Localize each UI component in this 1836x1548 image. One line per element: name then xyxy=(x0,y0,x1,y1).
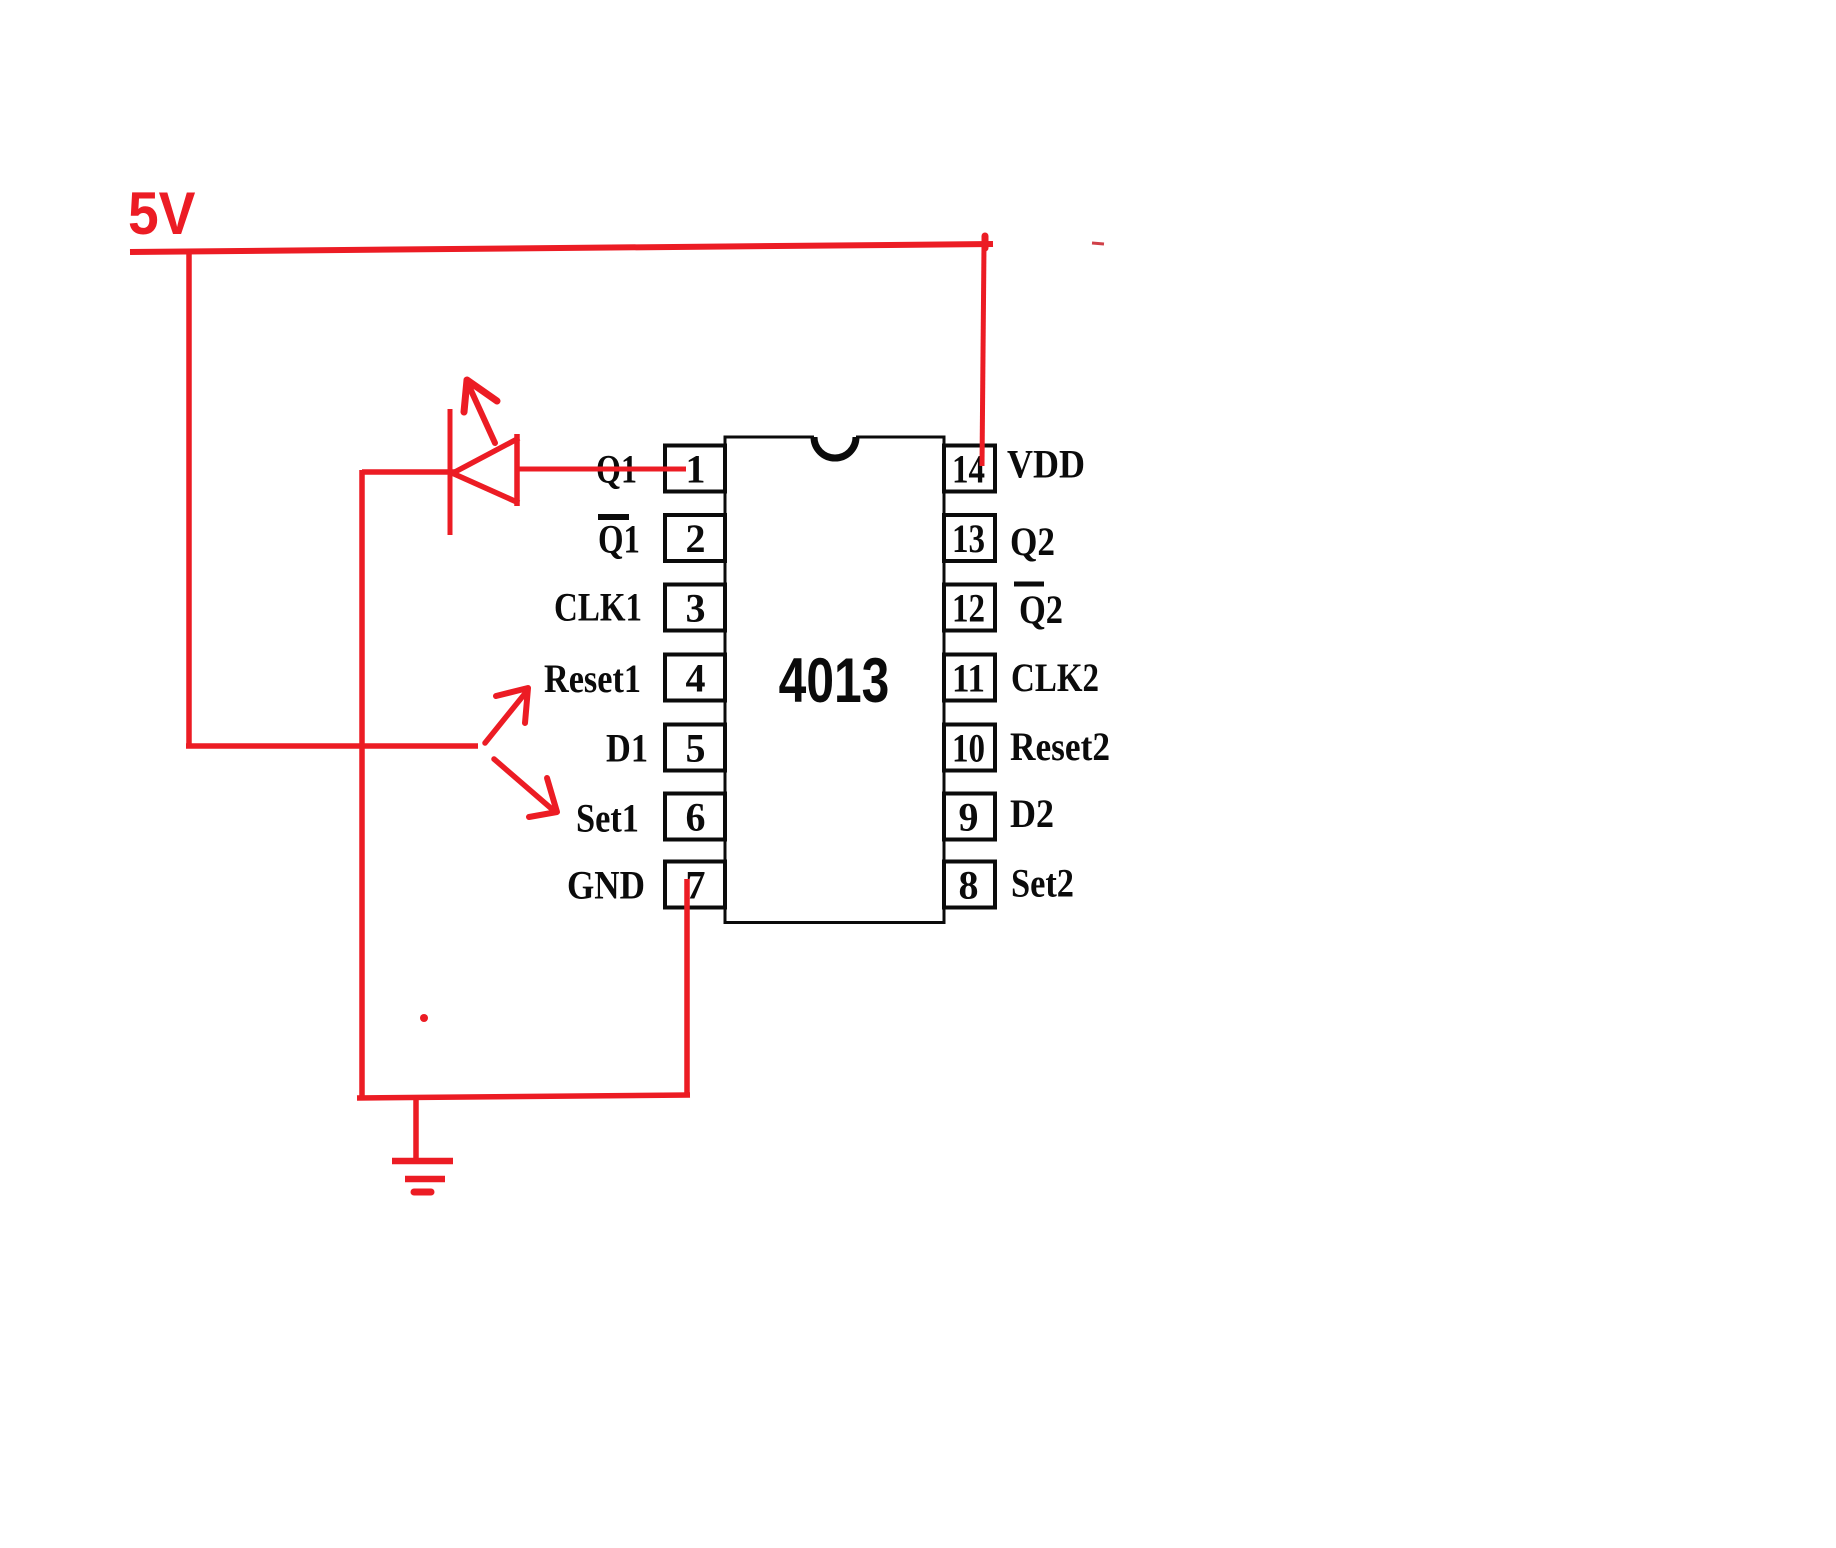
LED D1 emission arrow xyxy=(469,386,495,443)
svg-text:Reset1: Reset1 xyxy=(544,656,641,701)
junction stub above VDD corner xyxy=(982,236,989,248)
wire 5V top rail xyxy=(130,244,993,252)
svg-text:GND: GND xyxy=(567,863,645,908)
svg-text:10: 10 xyxy=(952,726,985,771)
pin box 14 xyxy=(944,446,995,492)
svg-text:9: 9 xyxy=(959,795,979,840)
pin box 13 xyxy=(944,515,995,561)
svg-text:12: 12 xyxy=(952,586,985,631)
LED D1 cathode bar xyxy=(448,409,453,535)
pin box 12 xyxy=(944,585,995,631)
svg-text:13: 13 xyxy=(952,516,985,561)
svg-text:4013: 4013 xyxy=(779,647,890,717)
svg-text:D2: D2 xyxy=(1010,791,1054,836)
arrow to Set1 xyxy=(494,759,553,810)
pin box 3 xyxy=(665,585,725,631)
ground symbol bar 2 xyxy=(405,1176,445,1183)
pin box 1 xyxy=(665,446,725,492)
svg-text:Reset2: Reset2 xyxy=(1010,724,1110,769)
pin box 4 xyxy=(665,655,725,701)
svg-text:CLK1: CLK1 xyxy=(554,585,642,630)
pin box 10 xyxy=(944,725,995,771)
LED D1 triangle xyxy=(453,438,519,473)
svg-text:Q1: Q1 xyxy=(598,517,640,562)
wire feeder to Reset1/Set1 fork xyxy=(186,743,478,749)
ground symbol bar 1 xyxy=(392,1158,453,1165)
wire LED cathode to left xyxy=(362,469,455,475)
pin box 5 xyxy=(665,725,725,771)
stray red dot xyxy=(420,1014,428,1022)
wire Q1 pin1 to LED anode xyxy=(517,467,686,472)
wire LED left drop xyxy=(359,470,365,1098)
svg-text:11: 11 xyxy=(952,656,985,701)
svg-text:1: 1 xyxy=(686,447,706,492)
svg-text:Set2: Set2 xyxy=(1011,861,1074,906)
wire 5V left drop xyxy=(186,250,192,746)
svg-text:5: 5 xyxy=(686,726,706,771)
svg-text:CLK2: CLK2 xyxy=(1011,655,1099,700)
stray red dash xyxy=(1092,243,1104,244)
svg-text:6: 6 xyxy=(686,795,706,840)
pin box 8 xyxy=(944,862,995,908)
IC U1 4013 body xyxy=(725,437,944,923)
svg-text:5V: 5V xyxy=(128,181,196,248)
pin box 11 xyxy=(944,655,995,701)
wire GND pin7 drop xyxy=(684,879,690,1097)
svg-text:3: 3 xyxy=(686,586,706,631)
pin box 6 xyxy=(665,794,725,840)
svg-text:Set1: Set1 xyxy=(576,796,639,841)
wire VDD drop to pin 14 xyxy=(982,245,984,466)
IC U1 pin-1 notch xyxy=(814,437,856,458)
svg-text:Q2: Q2 xyxy=(1010,519,1055,564)
ground symbol bar 3 xyxy=(414,1189,431,1196)
ground symbol stem xyxy=(413,1097,419,1159)
svg-text:VDD: VDD xyxy=(1007,442,1085,487)
pin box 7 xyxy=(665,862,725,908)
svg-text:2: 2 xyxy=(686,516,706,561)
arrow to Reset1 xyxy=(485,691,527,743)
svg-text:4: 4 xyxy=(686,656,706,701)
svg-text:Q2: Q2 xyxy=(1019,587,1063,632)
svg-text:D1: D1 xyxy=(606,726,648,771)
wire bottom rail xyxy=(357,1095,690,1098)
pin box 9 xyxy=(944,794,995,840)
pin box 2 xyxy=(665,515,725,561)
svg-text:8: 8 xyxy=(959,863,979,908)
